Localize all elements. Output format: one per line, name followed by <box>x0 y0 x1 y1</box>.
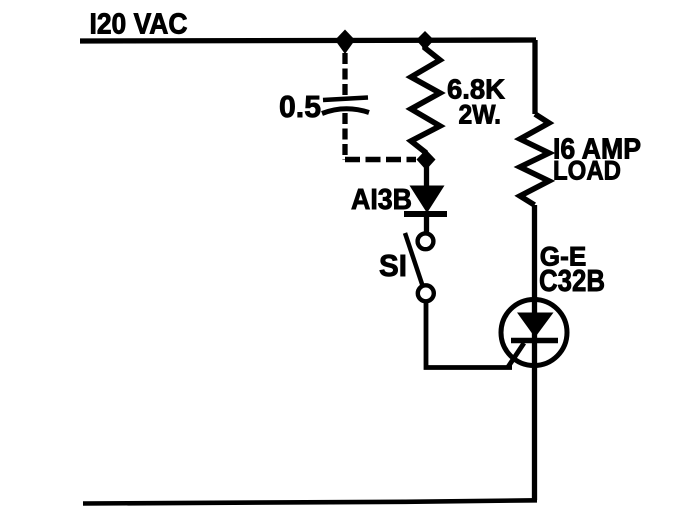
svg-text:C32B: C32B <box>539 263 605 298</box>
svg-text:AI3B: AI3B <box>351 184 412 216</box>
svg-text:I20 VAC: I20 VAC <box>90 9 188 41</box>
svg-text:LOAD: LOAD <box>553 156 621 186</box>
svg-text:SI: SI <box>379 248 407 283</box>
svg-text:2W.: 2W. <box>459 99 502 129</box>
svg-text:0.5: 0.5 <box>279 89 321 124</box>
